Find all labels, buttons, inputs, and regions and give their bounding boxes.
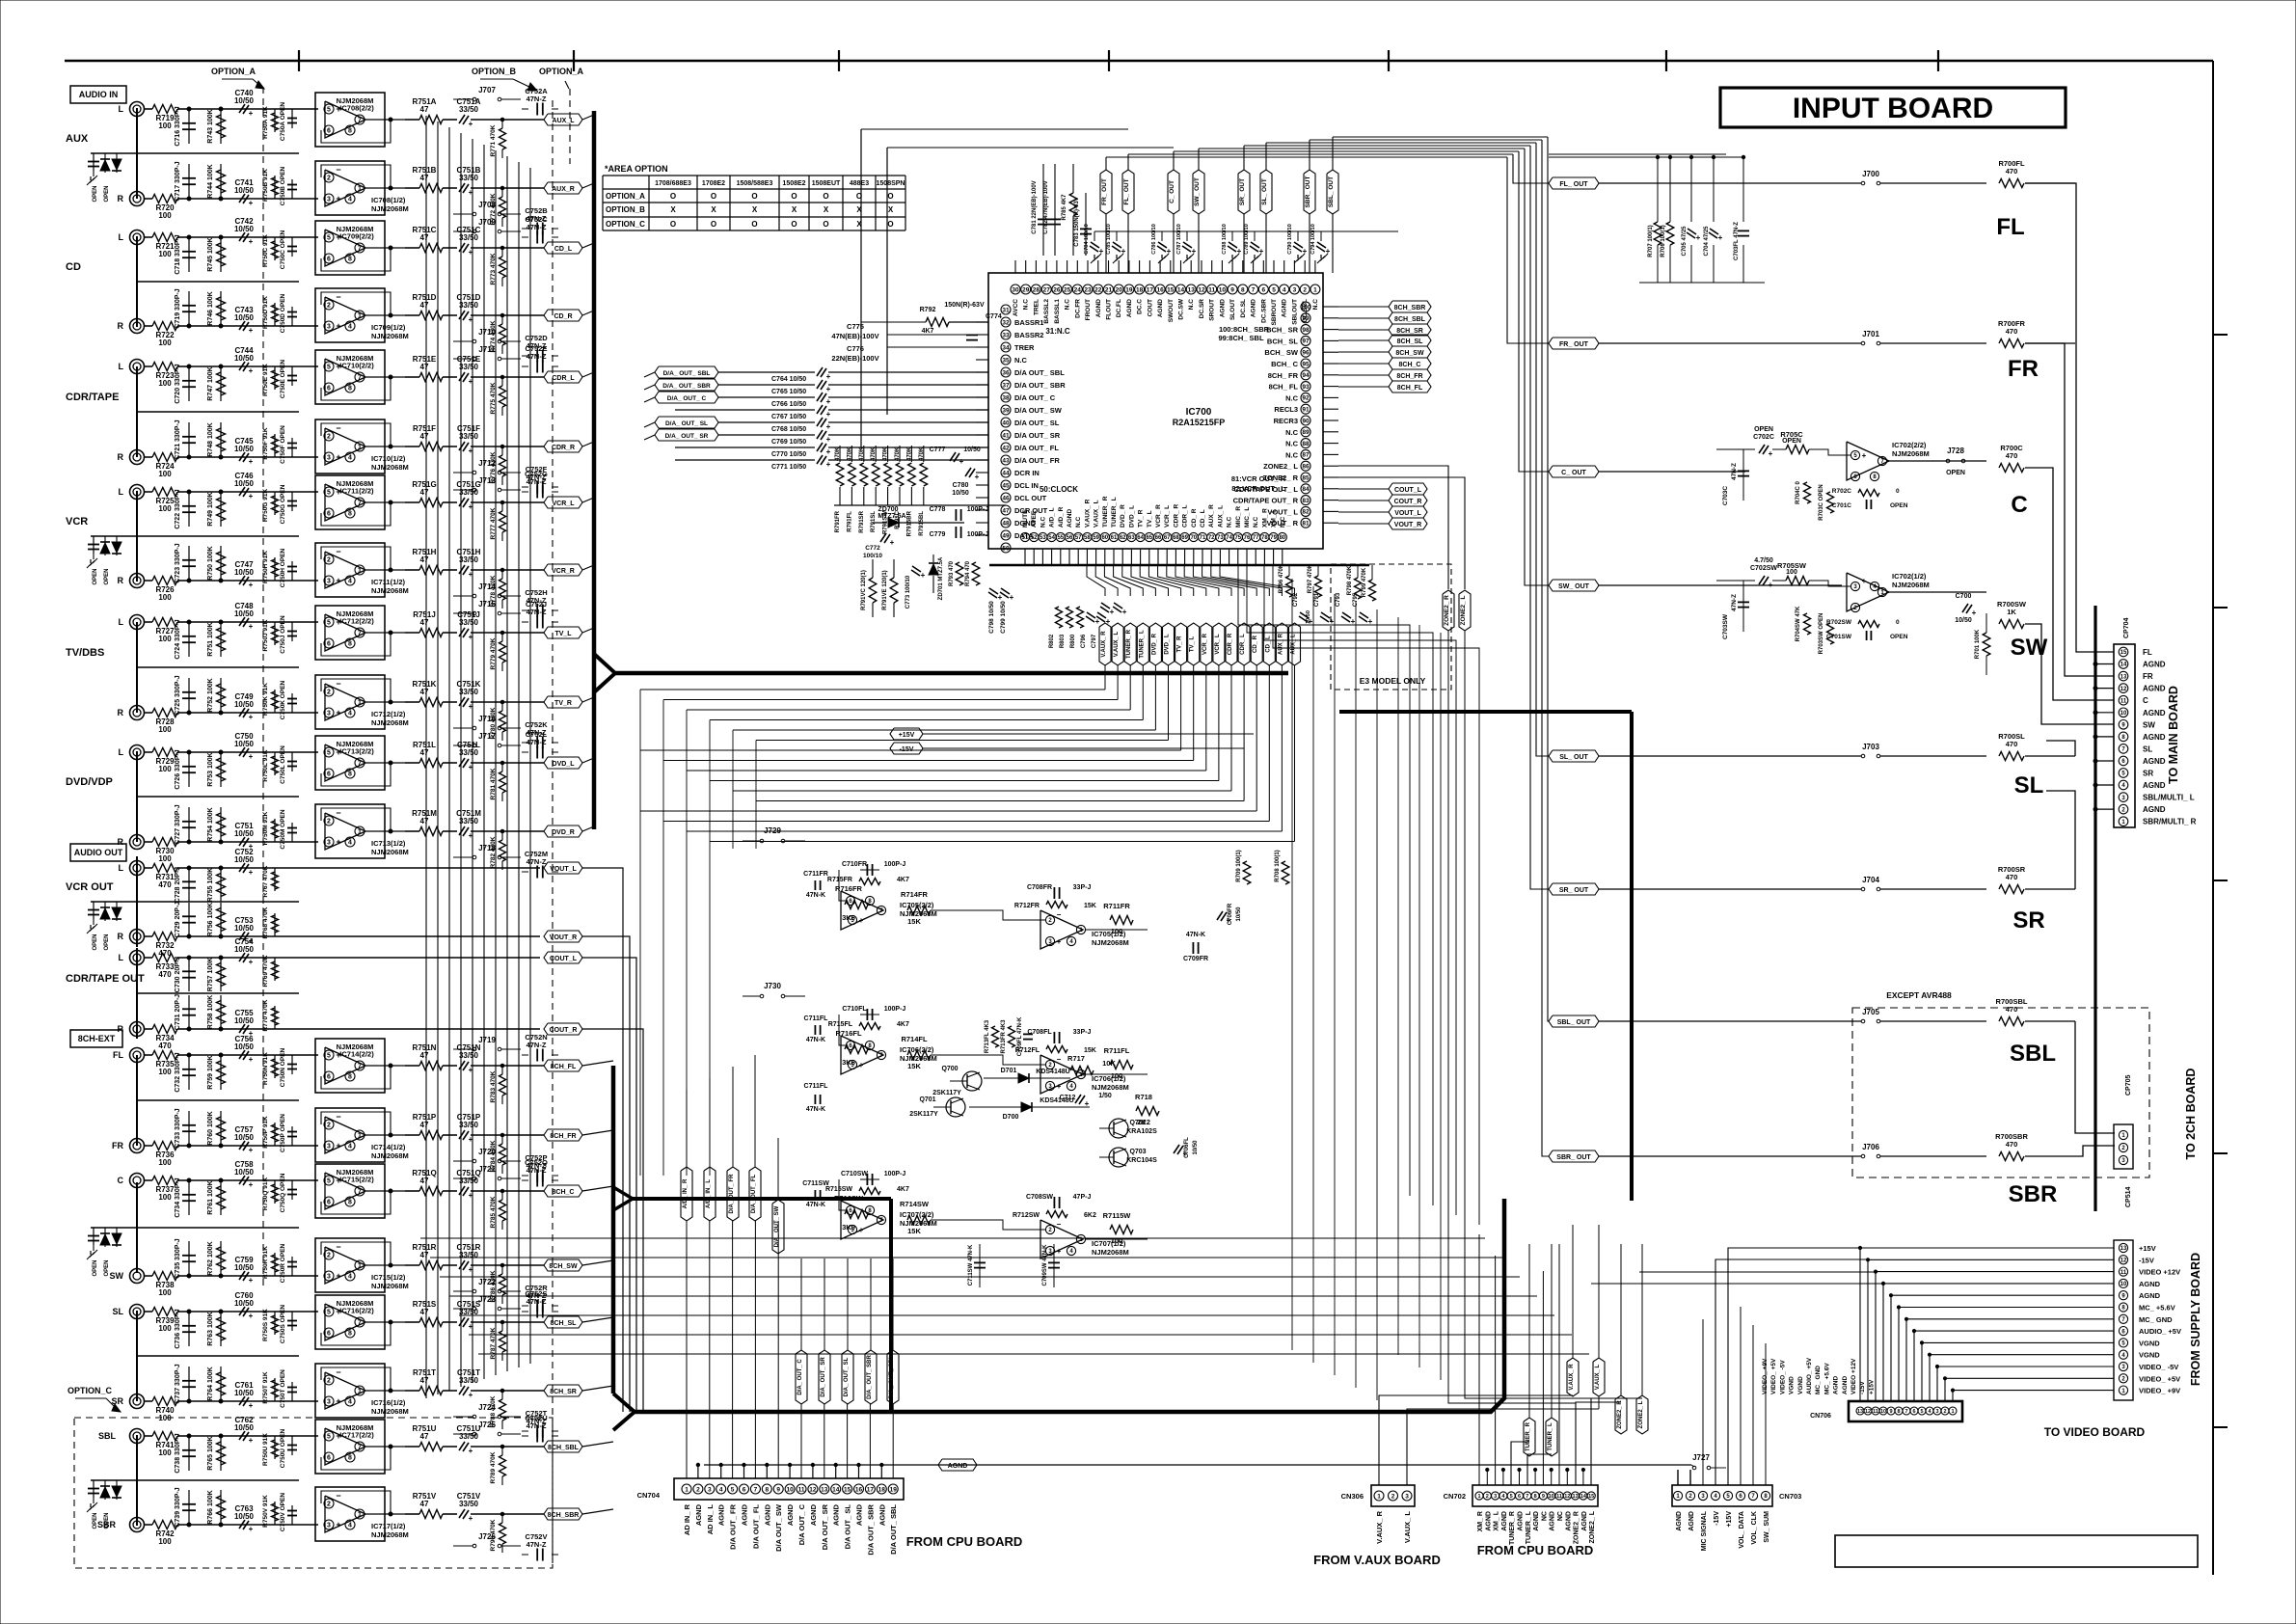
pin 60: [1100, 532, 1109, 541]
pin 72: [1207, 532, 1216, 541]
svg-text:V.AUX_ L: V.AUX_ L: [1094, 500, 1100, 528]
svg-text:VGND: VGND: [1797, 1376, 1804, 1394]
svg-text:3: 3: [327, 1274, 331, 1281]
svg-text:V.AUX_ L: V.AUX_ L: [1403, 1511, 1412, 1543]
svg-text:DVD_L: DVD_L: [553, 761, 576, 768]
svg-text:−: −: [336, 1242, 340, 1252]
pin 99: [1301, 313, 1310, 323]
svg-text:60: 60: [1101, 535, 1108, 541]
svg-text:L: L: [119, 232, 124, 242]
svg-text:8: 8: [1534, 1494, 1537, 1500]
resistor R729: [145, 751, 153, 753]
svg-text:N.C: N.C: [1023, 299, 1030, 311]
svg-text:R756 100K: R756 100K: [207, 903, 214, 936]
svg-text:D/A_ OUT_ SL: D/A_ OUT_ SL: [844, 1357, 850, 1396]
svg-text:100: 100: [158, 635, 172, 643]
svg-text:26: 26: [1053, 286, 1061, 293]
svg-text:DVD/VDP: DVD/VDP: [66, 776, 113, 788]
svg-text:0: 0: [1896, 488, 1900, 495]
svg-text:10/50: 10/50: [1193, 1140, 1199, 1155]
svg-text:ZD701 MTZ7.5A: ZD701 MTZ7.5A: [938, 556, 944, 600]
net label D/A_OUT_SBR: [655, 379, 718, 391]
svg-text:CD: CD: [66, 261, 81, 273]
wire: [834, 504, 1006, 506]
svg-text:SBR_ OUT: SBR_ OUT: [1305, 176, 1311, 208]
pin 32: [1001, 317, 1011, 327]
svg-text:3: 3: [708, 1486, 712, 1493]
svg-text:NJM2068M: NJM2068M: [371, 463, 409, 472]
svg-text:AGND: AGND: [1485, 1511, 1492, 1531]
component R707: [1657, 157, 1659, 222]
wire: [860, 129, 862, 448]
svg-text:29: 29: [1022, 286, 1030, 293]
svg-text:96: 96: [1302, 350, 1310, 357]
svg-text:47: 47: [420, 105, 429, 114]
wire: [365, 1390, 405, 1392]
capacitor C787: [1186, 231, 1188, 241]
svg-text:IC700: IC700: [1186, 407, 1212, 418]
capacitor C788: [1231, 231, 1233, 241]
svg-text:IC717(2/2): IC717(2/2): [339, 1431, 374, 1440]
wire: [365, 830, 405, 832]
svg-text:AGND: AGND: [1550, 1511, 1556, 1531]
svg-text:BASSL1: BASSL1: [1054, 299, 1061, 324]
svg-text:3: 3: [1494, 1494, 1497, 1500]
svg-text:33/50: 33/50: [459, 233, 479, 242]
svg-text:XM_ R: XM_ R: [1477, 1511, 1484, 1531]
svg-text:+: +: [826, 422, 831, 431]
svg-text:SBL: SBL: [98, 1431, 117, 1441]
svg-text:TO 2CH BOARD: TO 2CH BOARD: [2184, 1069, 2198, 1160]
net label CD_L: [544, 242, 582, 254]
capacitor C751M: [443, 830, 457, 832]
transistor Q703: [1109, 1148, 1128, 1167]
wire: [189, 751, 318, 753]
resistor R768: [274, 913, 276, 936]
svg-text:12: 12: [1198, 286, 1205, 293]
svg-text:10/50: 10/50: [234, 1016, 255, 1025]
svg-text:DC.SR: DC.SR: [1199, 299, 1205, 319]
svg-text:22: 22: [1094, 286, 1102, 293]
wire: [582, 628, 594, 633]
capacitor C756: [239, 1050, 245, 1059]
svg-text:5: 5: [327, 1178, 331, 1185]
wire: [582, 243, 594, 248]
svg-text:CDR_ L: CDR_ L: [1182, 504, 1189, 528]
title block: [1835, 1535, 2198, 1567]
svg-text:15: 15: [1588, 1494, 1594, 1500]
capacitor C751S: [443, 1321, 457, 1323]
wire: [582, 183, 594, 188]
resistor R737: [145, 1179, 153, 1181]
svg-text:IC716(1/2): IC716(1/2): [371, 1398, 406, 1407]
svg-text:2: 2: [1303, 286, 1307, 293]
svg-text:C738 330P-J: C738 330P-J: [175, 1433, 181, 1473]
wire: [573, 50, 575, 71]
net label AUX_L: [544, 114, 582, 125]
resistor R764: [220, 1367, 222, 1401]
svg-text:VOUT_R: VOUT_R: [1394, 522, 1421, 528]
net label 8CH_SR: [1389, 324, 1431, 336]
capacitor C728: [188, 868, 190, 902]
pin 45: [1001, 480, 1011, 490]
svg-text:C750F OPEN: C750F OPEN: [280, 425, 286, 464]
zener ZD701: [929, 564, 938, 575]
wire: [136, 108, 138, 199]
wire: [189, 621, 318, 623]
capacitor C752A: [536, 103, 538, 116]
svg-text:+: +: [1057, 1082, 1062, 1091]
capacitor C727: [188, 807, 190, 842]
svg-text:−: −: [1057, 910, 1062, 919]
pin 18: [1135, 284, 1145, 294]
pin 26: [1052, 284, 1062, 294]
wire: [1549, 156, 1743, 158]
svg-text:FR_ OUT: FR_ OUT: [1559, 341, 1589, 348]
svg-text:27: 27: [1043, 286, 1051, 293]
svg-text:6: 6: [327, 771, 331, 778]
svg-text:R773 470K: R773 470K: [490, 253, 497, 284]
svg-text:8CH_SR: 8CH_SR: [1396, 328, 1423, 335]
capacitor filter: [93, 902, 95, 919]
capacitor C779: [955, 527, 957, 538]
svg-text:81: 81: [1302, 521, 1310, 528]
capacitor C750L: [291, 752, 293, 771]
jumper J706: [1599, 1155, 1861, 1157]
svg-text:NJM2068M: NJM2068M: [371, 1151, 409, 1160]
svg-text:FROM SUPPLY BOARD: FROM SUPPLY BOARD: [2189, 1253, 2202, 1386]
svg-text:C750S OPEN: C750S OPEN: [280, 1305, 286, 1343]
wire: [2213, 1152, 2228, 1154]
net label CDR_L: [1238, 623, 1250, 665]
resistor R747: [220, 366, 222, 401]
capacitor C791: [1321, 612, 1330, 618]
svg-text:45: 45: [1002, 482, 1010, 489]
svg-text:R714FL: R714FL: [901, 1035, 928, 1043]
svg-text:53: 53: [1040, 535, 1046, 541]
transistor Q702: [1109, 1119, 1128, 1138]
resistor R751B: [419, 184, 443, 193]
svg-text:N.C: N.C: [1227, 517, 1233, 528]
svg-text:BCH_ SW: BCH_ SW: [1264, 348, 1299, 357]
svg-text:COUT_R: COUT_R: [550, 1027, 578, 1034]
svg-text:C750D OPEN: C750D OPEN: [280, 293, 286, 333]
svg-text:SL_ OUT: SL_ OUT: [1261, 178, 1268, 204]
svg-text:59: 59: [1093, 535, 1099, 541]
component C704: [1713, 157, 1715, 222]
svg-text:19: 19: [890, 1486, 898, 1493]
svg-text:AVCC: AVCC: [1013, 299, 1019, 316]
svg-text:VOL_ DATA: VOL_ DATA: [1739, 1511, 1745, 1549]
resistor R763: [220, 1312, 222, 1346]
capacitor C735: [188, 1241, 190, 1276]
svg-text:BCH_ SL: BCH_ SL: [1267, 337, 1299, 345]
svg-text:33/50: 33/50: [459, 1251, 479, 1259]
wire: [1665, 50, 1667, 71]
svg-text:10/50: 10/50: [234, 225, 255, 233]
capacitor C790: [1297, 231, 1299, 241]
net label 8CH_FR: [1389, 369, 1431, 381]
op-amp IC705(1/2): [1040, 910, 1083, 949]
capacitor C750J: [291, 622, 293, 641]
input jack CDR_R: [130, 450, 145, 465]
svg-text:33/50: 33/50: [459, 688, 479, 696]
svg-text:D/A_ OUT_ SW: D/A_ OUT_ SW: [774, 1205, 780, 1247]
svg-text:C750T OPEN: C750T OPEN: [280, 1369, 286, 1408]
svg-text:VOUT_L: VOUT_L: [1394, 510, 1421, 517]
A/D hex labels: [681, 1167, 692, 1221]
capacitor C762: [239, 1431, 245, 1440]
svg-text:C778: C778: [930, 506, 946, 513]
svg-text:R750 100K: R750 100K: [207, 546, 214, 580]
wire: [471, 830, 544, 832]
wire: [189, 935, 540, 937]
op-amp IC702(1/2): [1847, 573, 1889, 611]
svg-text:R771 470K: R771 470K: [490, 124, 497, 156]
resistor R785: [1072, 164, 1074, 193]
resistor R725: [145, 491, 153, 493]
wire: [471, 247, 544, 249]
net label 8CH_SBR: [1389, 301, 1431, 312]
svg-text:J715: J715: [478, 600, 496, 609]
svg-text:SR: SR: [2012, 907, 2044, 934]
svg-text:CP705: CP705: [2125, 1074, 2132, 1096]
capacitor C760: [239, 1307, 245, 1315]
svg-text:AGND: AGND: [1533, 1511, 1540, 1531]
svg-text:DVD_R: DVD_R: [552, 829, 575, 836]
svg-text:NJM2068M: NJM2068M: [371, 1407, 409, 1416]
svg-text:47N(EB)-100V: 47N(EB)-100V: [831, 332, 878, 340]
resistor R769: [274, 958, 276, 981]
svg-text:+: +: [336, 194, 340, 203]
svg-text:R750L 91K: R750L 91K: [262, 749, 269, 781]
capacitor C745: [239, 452, 245, 461]
wire bus: [592, 111, 597, 829]
svg-text:47N-K: 47N-K: [806, 1106, 825, 1113]
svg-text:C768 10/50: C768 10/50: [771, 426, 806, 433]
svg-text:5: 5: [1920, 1409, 1923, 1415]
svg-text:R789 470K: R789 470K: [490, 1451, 497, 1483]
svg-text:2: 2: [327, 1378, 331, 1385]
pin 4: [1280, 284, 1289, 294]
pin 10: [1217, 284, 1227, 294]
svg-text:86: 86: [1302, 464, 1310, 471]
net label ZONE2_L: [1636, 1395, 1648, 1434]
svg-text:L: L: [119, 362, 124, 371]
wire: [365, 1321, 405, 1323]
svg-text:100: 100: [1111, 927, 1123, 935]
wire: [860, 1178, 879, 1180]
capacitor C751P: [443, 1134, 457, 1136]
svg-text:J709: J709: [478, 218, 496, 227]
wire: [189, 325, 318, 327]
pin 84: [1301, 484, 1310, 494]
resistor R740: [145, 1400, 153, 1402]
svg-text:C729 20P-J: C729 20P-J: [175, 902, 181, 937]
wire: [136, 622, 138, 713]
svg-text:TUNER_ L: TUNER_ L: [1526, 1510, 1532, 1544]
net label 8CH_SL: [1389, 335, 1431, 346]
svg-text:-15V: -15V: [900, 746, 914, 753]
resistor R751T: [419, 1387, 443, 1395]
svg-text:6: 6: [327, 1074, 331, 1081]
svg-text:CDR/TAPE OUT_ R: CDR/TAPE OUT_ R: [1233, 497, 1299, 505]
svg-text:4: 4: [348, 1523, 352, 1529]
capacitor C743: [239, 321, 245, 330]
resistor R757: [220, 958, 222, 991]
svg-text:DCL IN: DCL IN: [1014, 481, 1039, 490]
svg-text:4: 4: [348, 711, 352, 717]
net label CD_R: [1251, 623, 1262, 665]
svg-text:10: 10: [786, 1486, 794, 1493]
svg-text:D/A OUT_ FR: D/A OUT_ FR: [729, 1503, 738, 1549]
net label VOUT_L: [544, 862, 582, 874]
svg-text:76: 76: [1244, 535, 1251, 541]
svg-text:C704 47/25: C704 47/25: [1704, 226, 1710, 257]
svg-text:Q703: Q703: [1129, 1149, 1146, 1155]
net label SBR_OUT: [1304, 170, 1315, 214]
net label SL_ OUT: [1549, 750, 1599, 762]
svg-text:COUT_R: COUT_R: [1394, 499, 1422, 505]
svg-text:C797: C797: [1092, 634, 1097, 648]
resistor R792: [926, 318, 949, 327]
component C703FL: [1742, 157, 1744, 222]
svg-text:TREL: TREL: [1033, 299, 1040, 315]
capacitor C709SW: [1053, 1244, 1055, 1287]
svg-text:AGND: AGND: [1676, 1511, 1683, 1531]
svg-text:C788 100/10: C788 100/10: [1222, 224, 1228, 255]
svg-text:N.C: N.C: [1253, 517, 1259, 528]
svg-text:3: 3: [327, 1523, 331, 1529]
svg-text:BCH_ C: BCH_ C: [1271, 360, 1299, 368]
wire feeders: [1291, 579, 1293, 1350]
resistor R7915BR: [910, 446, 912, 462]
ground: [93, 554, 95, 559]
svg-text:+15V: +15V: [1726, 1511, 1733, 1528]
svg-text:MIC SIGNAL: MIC SIGNAL: [1701, 1510, 1708, 1551]
net label 8CH_SBL: [544, 1441, 582, 1452]
svg-text:J719: J719: [478, 1036, 496, 1044]
capacitor C750N: [291, 1055, 293, 1074]
svg-text:C750G OPEN: C750G OPEN: [280, 484, 286, 524]
svg-text:DC.SW: DC.SW: [1178, 298, 1185, 320]
svg-text:D/A OUT_ SR: D/A OUT_ SR: [1014, 431, 1061, 440]
svg-text:N.C: N.C: [1285, 428, 1299, 437]
svg-text:A/D_ L: A/D_ L: [1049, 507, 1056, 528]
svg-text:94: 94: [1302, 372, 1310, 379]
wire: [189, 1179, 318, 1181]
pin 29: [1021, 284, 1031, 294]
wire supply left extensions: [1728, 1248, 1860, 1485]
svg-text:TV_ R: TV_ R: [1138, 509, 1145, 528]
svg-text:J704: J704: [1862, 876, 1879, 884]
svg-text:MTZ7.5A: MTZ7.5A: [878, 513, 905, 520]
svg-text:34: 34: [1002, 344, 1010, 351]
capacitor C752N: [536, 1049, 538, 1062]
pin 11: [1207, 284, 1217, 294]
svg-text:C716 330P-J: C716 330P-J: [175, 106, 181, 146]
svg-text:R707 100(1): R707 100(1): [1648, 225, 1654, 257]
svg-text:O: O: [823, 192, 828, 201]
svg-text:15K: 15K: [907, 917, 921, 926]
net label V.AUX_L: [1593, 1358, 1605, 1396]
svg-text:VOL_ CLK: VOL_ CLK: [1751, 1511, 1758, 1545]
svg-text:AGND: AGND: [2143, 685, 2166, 693]
svg-text:DC.SL: DC.SL: [1240, 299, 1247, 318]
svg-text:DC.C: DC.C: [1137, 299, 1144, 314]
svg-text:1: 1: [358, 1389, 362, 1395]
svg-text:21: 21: [1105, 286, 1113, 293]
svg-text:BASSR1: BASSR1: [1014, 318, 1043, 327]
input jack 8CH_FL: [130, 1048, 145, 1063]
svg-text:OPEN: OPEN: [104, 185, 110, 202]
svg-text:61: 61: [1111, 535, 1118, 541]
capacitor C711SW: [979, 1244, 981, 1287]
svg-text:3: 3: [327, 197, 331, 203]
svg-text:+: +: [1110, 608, 1115, 616]
svg-text:AGND: AGND: [694, 1503, 703, 1526]
resistor R785: [500, 1200, 506, 1221]
svg-text:C750U OPEN: C750U OPEN: [280, 1428, 286, 1468]
svg-text:2: 2: [327, 434, 331, 441]
wire: [582, 1130, 613, 1135]
pin 1: [1310, 284, 1320, 294]
svg-text:+: +: [1057, 937, 1062, 946]
resistor R715FR: [859, 879, 880, 885]
svg-text:2SK117Y: 2SK117Y: [932, 1090, 961, 1096]
svg-text:DVD_ L: DVD_ L: [1165, 634, 1171, 655]
svg-text:47: 47: [420, 174, 429, 182]
svg-text:+: +: [1057, 1247, 1062, 1256]
capacitor C751V: [443, 1513, 457, 1515]
net label C_OUT: [1549, 466, 1599, 477]
capacitor C752D: [536, 350, 538, 363]
svg-text:C793: C793: [1336, 592, 1341, 607]
svg-text:OPTION_A: OPTION_A: [539, 67, 584, 76]
wire bus: [1339, 710, 1632, 714]
svg-text:8CH_SL: 8CH_SL: [1397, 338, 1424, 345]
net label TV_R: [1175, 623, 1187, 665]
svg-text:47N-K: 47N-K: [806, 1202, 825, 1208]
svg-text:5: 5: [327, 1053, 331, 1060]
svg-text:AGND: AGND: [855, 1503, 864, 1526]
net label 8CH_SR: [544, 1385, 582, 1396]
svg-text:+: +: [826, 410, 831, 419]
pin 83: [1301, 496, 1310, 505]
svg-text:D/A_ OUT_ SBR: D/A_ OUT_ SBR: [662, 383, 711, 390]
svg-text:9: 9: [1889, 1409, 1892, 1415]
svg-text:N.C: N.C: [1075, 517, 1082, 528]
svg-text:ZONE2_ R: ZONE2_ R: [1574, 1511, 1580, 1544]
pin 81: [1301, 518, 1310, 528]
wire: [136, 948, 138, 1039]
diode clamp: [116, 902, 118, 921]
svg-text:41: 41: [1002, 432, 1010, 439]
svg-text:AGND: AGND: [1095, 299, 1102, 317]
pin 8: [1238, 284, 1248, 294]
wire: [65, 60, 2213, 62]
resistor R700SBR: [1999, 1152, 2024, 1161]
resistor R752: [220, 678, 222, 713]
resistor R739: [145, 1311, 153, 1313]
svg-text:D/A_ OUT_ SBL: D/A_ OUT_ SBL: [889, 1355, 895, 1398]
svg-text:18: 18: [878, 1486, 886, 1493]
svg-text:VOUT_ L: VOUT_ L: [1267, 507, 1298, 516]
svg-text:C708FR: C708FR: [1027, 884, 1052, 891]
wire: [1511, 1442, 1529, 1485]
resistor R750G: [274, 492, 276, 515]
svg-text:47: 47: [420, 1121, 429, 1129]
